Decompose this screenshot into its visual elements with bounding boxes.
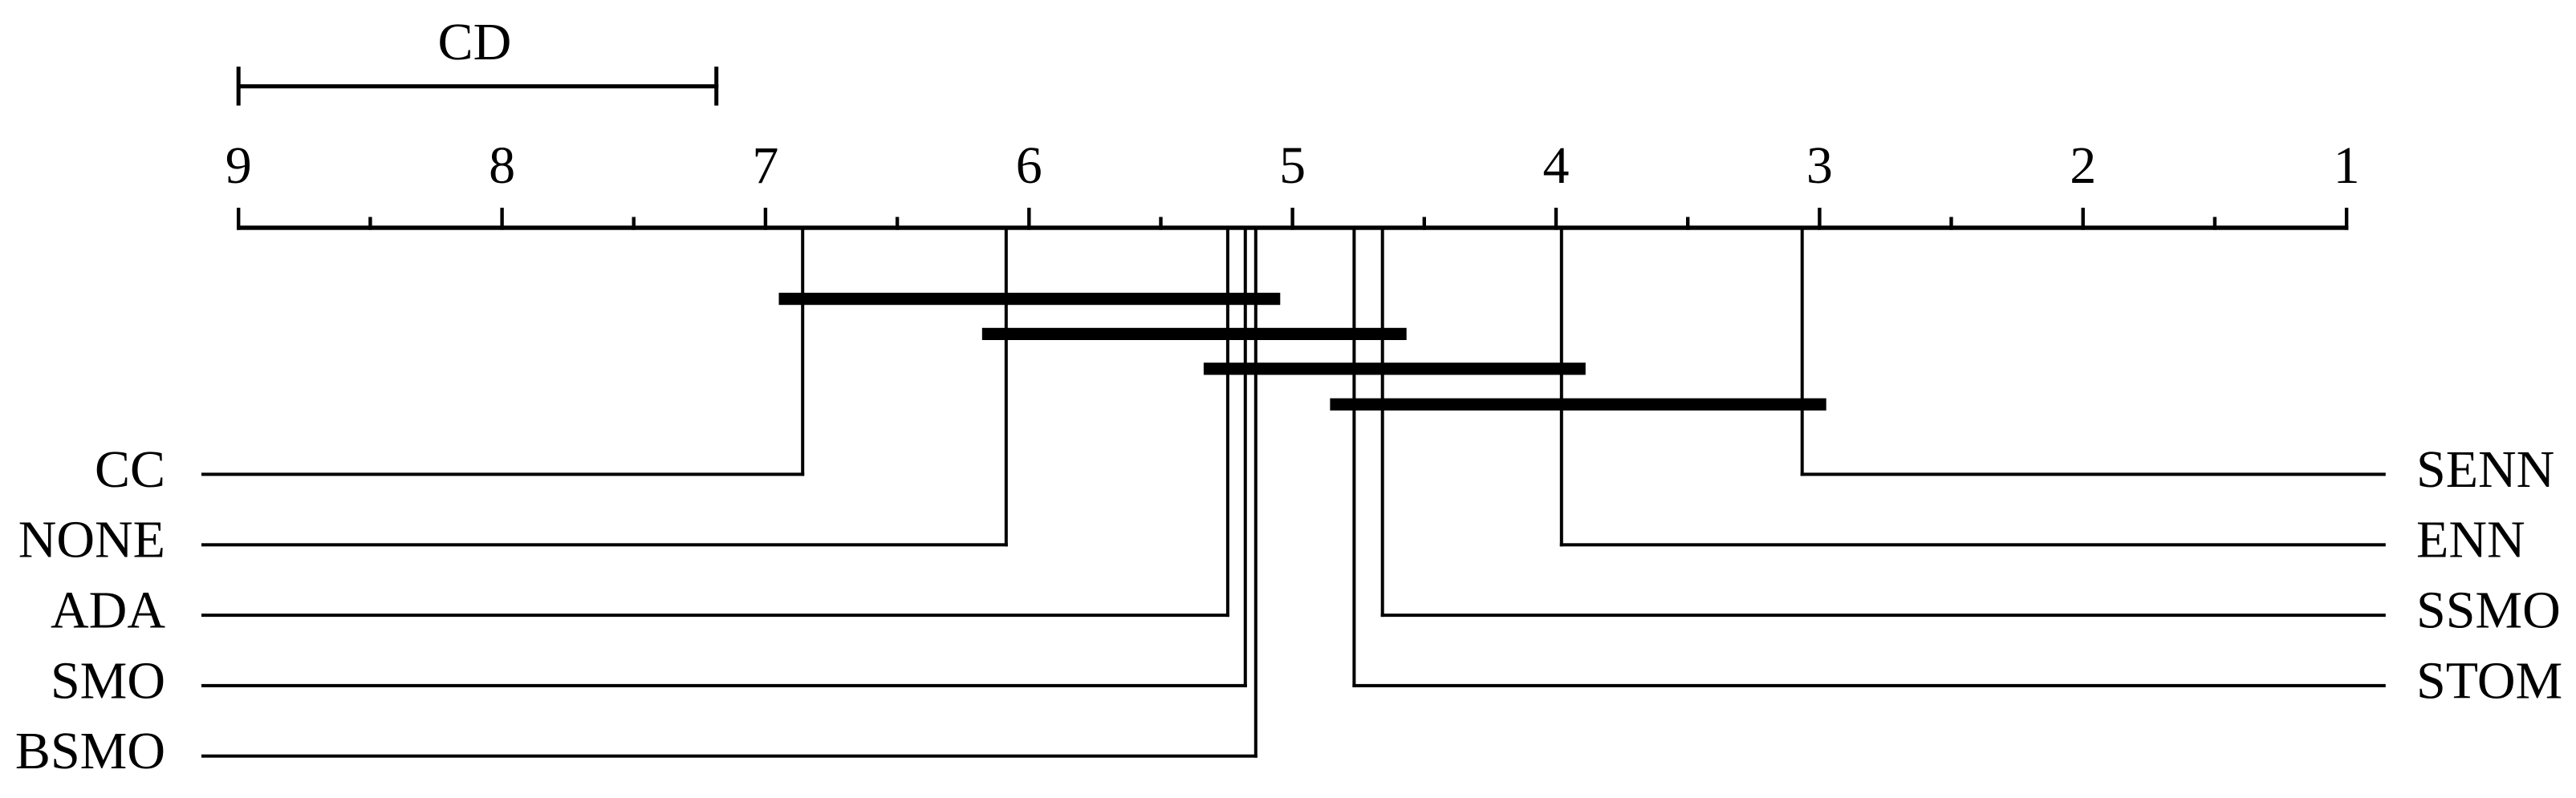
svg-text:5: 5 bbox=[1279, 136, 1306, 195]
svg-text:SENN: SENN bbox=[2416, 440, 2554, 499]
svg-text:7: 7 bbox=[752, 136, 778, 195]
svg-text:CD: CD bbox=[438, 13, 512, 71]
svg-text:6: 6 bbox=[1016, 136, 1042, 195]
SENN vertical line bbox=[1801, 229, 1804, 476]
axis major tick 4 bbox=[1554, 208, 1558, 230]
axis minor tick 3.5 bbox=[1686, 217, 1689, 230]
svg-text:3: 3 bbox=[1806, 136, 1833, 195]
axis minor tick 2.5 bbox=[1949, 217, 1952, 230]
ADA vertical line bbox=[1226, 229, 1229, 617]
axis major tick 7 bbox=[764, 208, 767, 230]
NONE vertical line bbox=[1005, 229, 1008, 546]
clique bar 4 (STOM-SENN) bbox=[1330, 399, 1826, 411]
clique bar 1 (CC-BSMO) bbox=[779, 293, 1281, 305]
svg-text:NONE: NONE bbox=[18, 511, 165, 569]
svg-text:2: 2 bbox=[2070, 136, 2096, 195]
SMO horizontal line bbox=[201, 684, 1247, 687]
axis minor tick 5.5 bbox=[1159, 217, 1162, 230]
svg-text:1: 1 bbox=[2334, 136, 2360, 195]
axis minor tick 6.5 bbox=[896, 217, 899, 230]
SENN horizontal line bbox=[1801, 472, 2386, 476]
svg-text:SSMO: SSMO bbox=[2416, 581, 2561, 640]
CC horizontal line bbox=[201, 472, 804, 476]
axis major tick 5 bbox=[1290, 208, 1294, 230]
STOM vertical line bbox=[1352, 229, 1355, 687]
axis line bbox=[237, 225, 2348, 229]
clique bar 3 (ADA-ENN) bbox=[1204, 363, 1586, 375]
svg-text:BSMO: BSMO bbox=[15, 722, 165, 780]
SSMO vertical line bbox=[1381, 229, 1384, 617]
axis minor tick 1.5 bbox=[2213, 217, 2216, 230]
svg-text:CC: CC bbox=[95, 440, 165, 499]
ADA horizontal line bbox=[201, 614, 1229, 617]
CD interval left cap bbox=[237, 67, 241, 106]
svg-text:STOM: STOM bbox=[2416, 651, 2562, 710]
STOM horizontal line bbox=[1352, 684, 2385, 687]
SSMO horizontal line bbox=[1381, 614, 2386, 617]
svg-text:8: 8 bbox=[489, 136, 515, 195]
svg-text:SMO: SMO bbox=[51, 651, 165, 710]
axis major tick 2 bbox=[2082, 208, 2085, 230]
CC vertical line bbox=[801, 229, 804, 476]
axis major tick 3 bbox=[1818, 208, 1821, 230]
axis minor tick 8.5 bbox=[368, 217, 372, 230]
svg-text:ADA: ADA bbox=[51, 581, 165, 640]
svg-text:ENN: ENN bbox=[2416, 511, 2525, 569]
axis major tick 1 bbox=[2345, 208, 2348, 230]
svg-text:9: 9 bbox=[226, 136, 252, 195]
SMO vertical line bbox=[1244, 229, 1247, 687]
CD interval line bbox=[237, 84, 718, 88]
axis major tick 8 bbox=[500, 208, 503, 230]
clique bar 2 (NONE-SSMO) bbox=[982, 328, 1407, 340]
axis minor tick 4.5 bbox=[1423, 217, 1426, 230]
BSMO vertical line bbox=[1254, 229, 1258, 758]
svg-text:4: 4 bbox=[1543, 136, 1570, 195]
NONE horizontal line bbox=[201, 543, 1008, 546]
ENN horizontal line bbox=[1560, 543, 2386, 546]
CD interval right cap bbox=[714, 67, 718, 106]
ENN vertical line bbox=[1560, 229, 1563, 546]
axis major tick 9 bbox=[237, 208, 240, 230]
axis major tick 6 bbox=[1027, 208, 1030, 230]
axis minor tick 7.5 bbox=[632, 217, 636, 230]
BSMO horizontal line bbox=[201, 755, 1258, 758]
